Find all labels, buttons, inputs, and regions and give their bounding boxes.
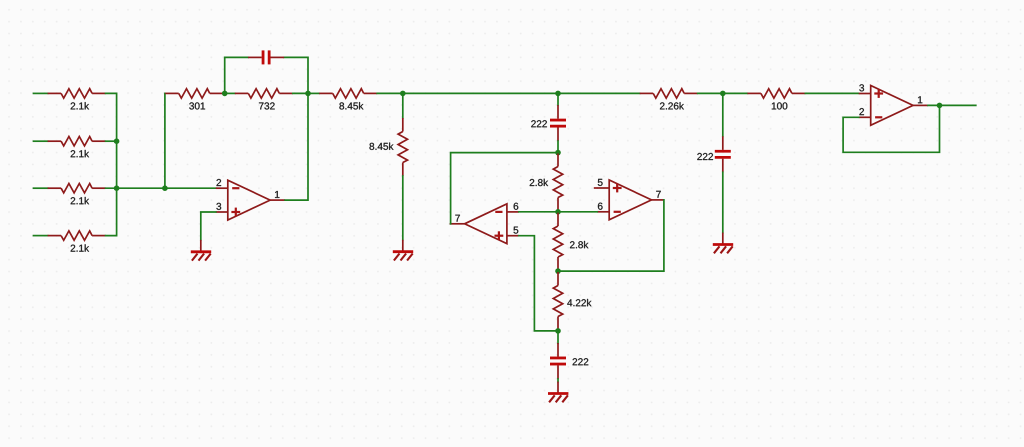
wire <box>308 92 319 94</box>
wire <box>377 92 640 94</box>
wire <box>34 140 48 142</box>
resistor R12 2.26k <box>640 89 698 110</box>
wire <box>34 235 48 237</box>
ground GND2 <box>393 240 413 261</box>
op-amp U2A <box>450 203 519 244</box>
resistor R13 100 <box>747 89 805 110</box>
wire <box>285 93 308 200</box>
wire <box>557 141 559 153</box>
wire <box>557 93 559 105</box>
resistor R11 4.22k <box>553 272 591 330</box>
junction node in- <box>162 185 168 191</box>
op-amp U1A <box>216 179 285 220</box>
wire <box>293 92 308 94</box>
wire <box>519 236 558 331</box>
wire <box>106 93 117 235</box>
wire <box>722 172 724 232</box>
wire <box>451 153 558 224</box>
resistor R6 732 <box>235 89 293 110</box>
wire <box>402 176 404 240</box>
op-amp U2B <box>597 179 664 220</box>
capacitor 222 <box>697 136 730 172</box>
wire <box>722 93 724 136</box>
capacitor 222 <box>550 343 588 379</box>
wire <box>225 57 248 93</box>
resistor R1 2.1k <box>48 89 106 110</box>
junction node B <box>305 91 311 97</box>
wire <box>558 200 664 271</box>
junction output node <box>937 103 943 109</box>
wire <box>106 187 216 189</box>
wire <box>698 92 748 94</box>
wire <box>557 331 559 343</box>
resistor R9 2.8k <box>530 153 563 211</box>
wire <box>558 211 597 213</box>
ground GND4 <box>548 382 568 403</box>
resistor R5 301 <box>165 89 223 110</box>
junction node F <box>555 209 561 215</box>
junction node G <box>555 268 561 274</box>
wire <box>34 187 48 189</box>
junction node D <box>555 91 561 97</box>
junction node H <box>555 328 561 334</box>
wire <box>225 92 235 94</box>
junction node A <box>222 91 228 97</box>
resistor R2 2.1k <box>48 137 106 158</box>
ground GND3 <box>713 233 733 254</box>
wire <box>34 92 48 94</box>
junction node C <box>400 91 406 97</box>
capacitor <box>248 50 284 64</box>
op-amp U1B <box>859 84 928 125</box>
ground GND1 <box>191 240 211 261</box>
resistor R4 2.1k <box>48 231 106 252</box>
resistor R10 2.8k <box>553 213 588 271</box>
wire <box>805 92 858 94</box>
resistor R3 2.1k <box>48 184 106 205</box>
wire <box>843 105 939 152</box>
wire <box>106 140 117 142</box>
wire <box>557 379 559 382</box>
junction node I <box>720 91 726 97</box>
junction bus-row3 <box>114 185 120 191</box>
wire <box>164 93 166 188</box>
junction node E <box>555 150 561 156</box>
resistor R8 8.45k <box>369 118 407 176</box>
wire <box>284 57 308 93</box>
resistor R7 8.45k <box>319 89 377 110</box>
pin 5 stub U2B <box>594 187 598 189</box>
wire <box>928 104 976 106</box>
wire <box>519 211 558 213</box>
wire <box>402 93 404 118</box>
capacitor 222 <box>531 105 566 141</box>
wire <box>201 212 216 240</box>
junction bus-row2 <box>114 138 120 144</box>
